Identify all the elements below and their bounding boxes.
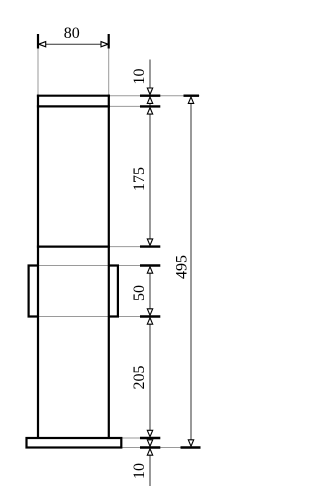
svg-text:50: 50 xyxy=(131,285,148,301)
tick 495 bottom xyxy=(181,446,201,448)
svg-text:175: 175 xyxy=(131,167,148,191)
cap bottom line xyxy=(37,105,110,107)
extension line collar top xyxy=(39,265,159,267)
arrow down to base bottom (10 inner) xyxy=(147,440,152,446)
arrow up below collar top (50 start) xyxy=(147,267,152,273)
dim line right chain upper xyxy=(149,60,151,247)
arrow up below cap bottom (10 end) xyxy=(147,108,152,114)
dim line right chain lower xyxy=(149,266,151,487)
tick 80 right xyxy=(108,34,110,49)
arrow up below 495 top xyxy=(188,97,193,103)
dim line 495 xyxy=(190,96,192,448)
arrow 80 left xyxy=(39,42,46,47)
svg-text:80: 80 xyxy=(64,25,80,42)
extension line top-right (80 dim) xyxy=(108,35,110,95)
svg-text:10: 10 xyxy=(131,69,148,85)
extension line cap bottom xyxy=(110,105,159,107)
svg-text:205: 205 xyxy=(131,366,148,390)
extension line base bottom xyxy=(122,447,200,449)
extension line collar bottom xyxy=(39,316,159,318)
svg-text:495: 495 xyxy=(173,255,190,279)
extension line base top xyxy=(122,437,159,439)
cap top line xyxy=(37,95,110,97)
arrow up below cap top (175 start) xyxy=(147,97,152,103)
tick 495 top xyxy=(184,94,200,96)
extension line top-left (80 dim) xyxy=(37,35,39,95)
post body left edge xyxy=(37,95,39,438)
svg-text:10: 10 xyxy=(131,463,148,479)
tick collar bottom xyxy=(140,315,160,317)
extension line mid divider xyxy=(110,246,159,248)
arrow 80 right xyxy=(101,42,108,47)
arrow down to mid divider (175 end) xyxy=(147,239,152,245)
tick base bottom xyxy=(140,446,160,448)
dim line 80 xyxy=(38,43,109,45)
collar left bracket xyxy=(29,266,38,317)
tick cap top xyxy=(140,94,160,96)
post body right edge xyxy=(108,95,110,438)
arrow up below base bottom (10 outer) xyxy=(147,449,152,455)
tick collar top xyxy=(140,264,160,266)
arrow down to 495 bottom xyxy=(188,440,193,446)
tick mid divider xyxy=(140,245,160,247)
extension line cap top xyxy=(110,95,200,97)
base plate xyxy=(27,438,122,448)
tick cap bottom xyxy=(140,105,160,107)
arrow down to collar bottom (50 end) xyxy=(147,309,152,315)
collar right bracket xyxy=(109,266,118,317)
arrow up below collar bottom (205 start) xyxy=(147,318,152,324)
arrow down to base top (205 end) xyxy=(147,430,152,436)
arrow down to cap top xyxy=(147,88,152,94)
tick base top xyxy=(140,437,160,439)
mid divider line xyxy=(37,246,110,248)
tick 80 left xyxy=(37,34,39,49)
